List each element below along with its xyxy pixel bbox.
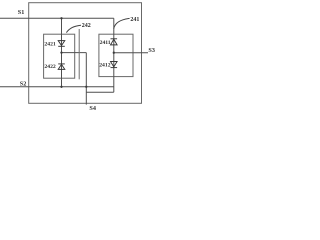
wire S3 horizontal xyxy=(114,52,148,54)
svg-text:242: 242 xyxy=(82,23,91,29)
box 241 (right diode pair block) xyxy=(99,34,133,76)
leader arc 241 xyxy=(114,18,130,28)
diode 2421 symbol (cathode down) xyxy=(58,41,65,47)
diode 2411 symbol (cathode up) xyxy=(111,39,118,45)
wire S1 horizontal xyxy=(0,17,114,19)
wire S2 horizontal xyxy=(0,86,114,88)
junction node mid right xyxy=(113,52,115,54)
junction node S2/S4 xyxy=(85,86,87,88)
svg-text:S1: S1 xyxy=(18,9,25,16)
svg-text:S4: S4 xyxy=(89,105,96,112)
outer device boundary rectangle xyxy=(29,3,142,104)
wire S4 vertical xyxy=(85,53,87,105)
svg-text:2421: 2421 xyxy=(44,41,56,47)
svg-text:2422: 2422 xyxy=(44,64,56,70)
box 242 (left diode pair block) xyxy=(44,34,75,78)
leader arc 242 xyxy=(66,25,81,32)
diode 2412 symbol (cathode down) xyxy=(111,62,118,68)
junction node S2/left column xyxy=(60,86,62,88)
svg-text:241: 241 xyxy=(130,17,139,23)
junction node mid left xyxy=(60,51,62,53)
wire right column xyxy=(113,18,115,92)
svg-text:S2: S2 xyxy=(20,81,27,88)
wire mid node horizontal xyxy=(62,52,87,54)
svg-text:2412: 2412 xyxy=(99,63,111,69)
diode 2422 symbol (cathode up) xyxy=(58,64,65,70)
divider line between blocks xyxy=(78,29,80,79)
svg-text:S3: S3 xyxy=(148,47,155,54)
junction node S1/left column xyxy=(60,17,62,19)
wire left column xyxy=(61,18,63,87)
svg-text:2411: 2411 xyxy=(100,40,111,46)
wire bottom link horizontal xyxy=(86,91,114,93)
